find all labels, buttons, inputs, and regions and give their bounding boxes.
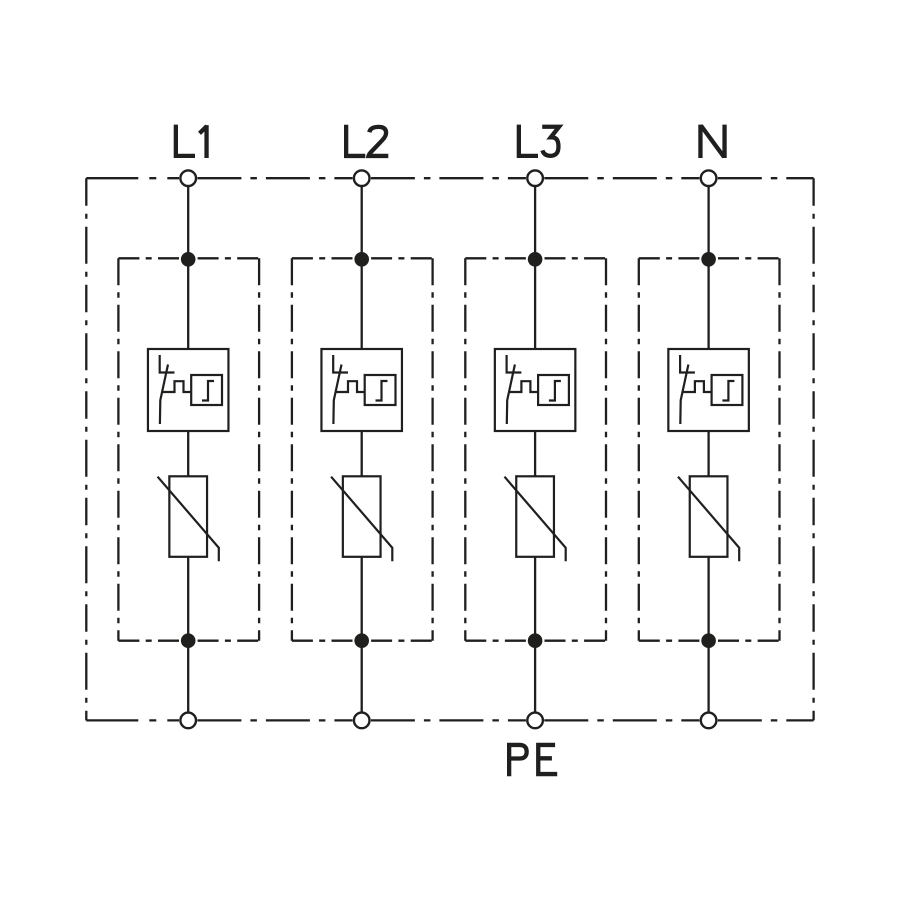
wire: varistor to lower junction, branch L2 — [361, 557, 363, 641]
label L3 — [519, 125, 559, 156]
terminal N (open circle) — [701, 170, 717, 186]
PE-side terminal below branch N (open circle) — [701, 713, 717, 729]
wire: lower junction down to PE bus terminal, branch N — [707, 641, 709, 721]
junction node, protection module to PE bus, branch N — [701, 633, 716, 648]
thermal disconnector with status indicator, branch L2 — [321, 349, 402, 431]
wire: terminal L3 down to junction — [534, 178, 536, 259]
wire: junction down to disconnector, branch L1 — [187, 259, 189, 349]
junction node, protection module to PE bus, branch L2 — [354, 633, 369, 648]
terminal L1 (open circle) — [180, 170, 196, 186]
wire: terminal L2 down to junction — [361, 178, 363, 259]
wire: terminal L1 down to junction — [187, 178, 189, 259]
wire: lower junction down to PE bus terminal, branch L2 — [361, 641, 363, 721]
wire: junction down to disconnector, branch N — [707, 259, 709, 349]
varistor (MOV), branch L1 — [158, 476, 219, 561]
varistor (MOV), branch N — [678, 476, 739, 561]
wire: junction down to disconnector, branch L3 — [534, 259, 536, 349]
PE-side terminal below branch L2 (open circle) — [354, 713, 370, 729]
label L1 — [176, 125, 207, 158]
terminal L2 (open circle) — [354, 170, 370, 186]
wire: varistor to lower junction, branch L1 — [187, 557, 189, 641]
terminal L3 (open circle) — [527, 170, 543, 186]
wire: varistor to lower junction, branch N — [707, 557, 709, 641]
junction node, N to protection module — [701, 252, 716, 267]
junction node, L2 to protection module — [354, 252, 369, 267]
protection module boundary (dash-dot box), branch L2 — [292, 258, 433, 640]
protection module boundary (dash-dot box), branch L1 — [118, 258, 259, 640]
protection module boundary (dash-dot box), branch N — [639, 258, 780, 640]
label L2 — [346, 125, 388, 156]
label N — [700, 125, 724, 158]
SPD device enclosure boundary (dash-dot outline) — [86, 178, 813, 720]
wire: terminal N down to junction — [707, 178, 709, 259]
PE-side terminal below branch L1 (open circle) — [180, 713, 196, 729]
junction node, protection module to PE bus, branch L1 — [181, 633, 196, 648]
wire: varistor to lower junction, branch L3 — [534, 557, 536, 641]
wire: lower junction down to PE bus terminal, branch L1 — [187, 641, 189, 721]
wire: disconnector to varistor, branch L2 — [361, 431, 363, 476]
wire: lower junction down to PE bus terminal, branch L3 — [534, 641, 536, 721]
protection module boundary (dash-dot box), branch L3 — [465, 258, 606, 640]
wire: junction down to disconnector, branch L2 — [361, 259, 363, 349]
varistor (MOV), branch L2 — [331, 476, 392, 561]
varistor (MOV), branch L3 — [505, 476, 566, 561]
PE-side terminal below branch L3 (open circle) — [527, 713, 543, 729]
thermal disconnector with status indicator, branch L1 — [148, 349, 229, 431]
wire: disconnector to varistor, branch L3 — [534, 431, 536, 476]
thermal disconnector with status indicator, branch L3 — [495, 349, 575, 431]
label PE — [509, 743, 557, 776]
thermal disconnector with status indicator, branch N — [668, 349, 749, 431]
junction node, L3 to protection module — [528, 252, 543, 267]
junction node, protection module to PE bus, branch L3 — [528, 633, 543, 648]
junction node, L1 to protection module — [181, 252, 196, 267]
wire: disconnector to varistor, branch N — [707, 431, 709, 476]
wire: disconnector to varistor, branch L1 — [187, 431, 189, 476]
